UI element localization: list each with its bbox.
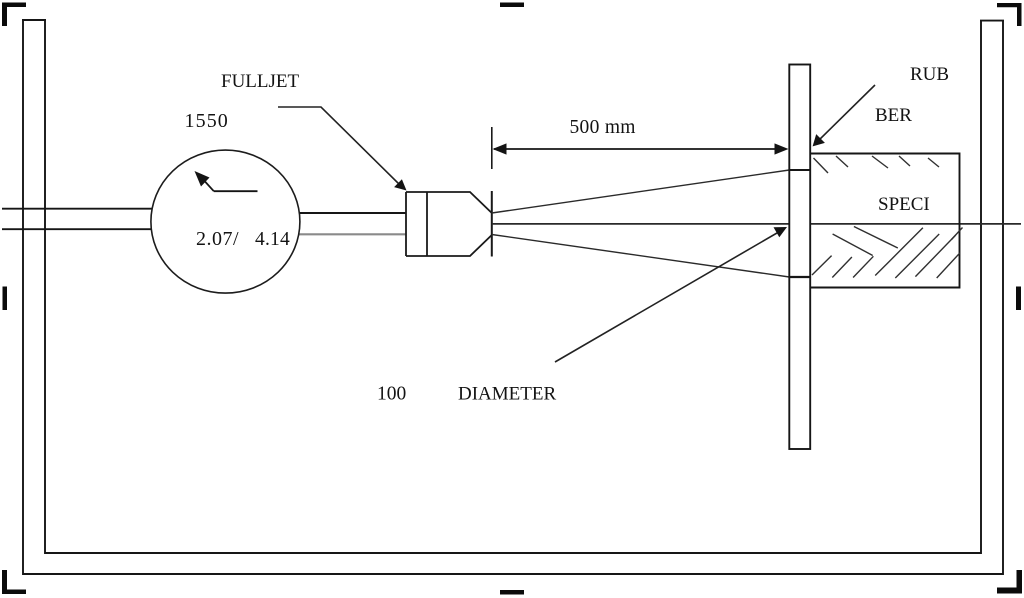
svg-text:4.14: 4.14 bbox=[255, 229, 290, 250]
registration mark middle-right bbox=[1016, 287, 1021, 311]
specimen outline bbox=[810, 154, 959, 288]
svg-text:500 mm: 500 mm bbox=[570, 117, 636, 138]
registration mark top-right bbox=[997, 3, 1022, 26]
registration mark top-left bbox=[2, 3, 26, 27]
svg-text:DIAMETER: DIAMETER bbox=[458, 384, 556, 405]
rubber leader line bbox=[817, 85, 875, 142]
dimension arrowhead right bbox=[775, 143, 789, 154]
rubber leader arrowhead bbox=[813, 134, 825, 146]
plate window bottom line bbox=[789, 276, 810, 278]
tank left wall top cap bbox=[22, 19, 46, 21]
pipe gauge-to-nozzle lower line (gray) bbox=[296, 233, 406, 235]
dimension extension line bbox=[491, 127, 493, 169]
registration mark top-middle bbox=[500, 3, 524, 8]
spray axis line bbox=[492, 223, 1021, 225]
supply pipe left lower line bbox=[2, 228, 155, 230]
svg-text:RUB: RUB bbox=[910, 64, 949, 85]
dimension arrowhead left bbox=[493, 143, 507, 154]
specimen hatch bottom bbox=[812, 227, 963, 279]
svg-text:FULLJET: FULLJET bbox=[221, 71, 300, 92]
supply pipe left upper line bbox=[2, 208, 155, 210]
dimension line 500mm bbox=[494, 148, 786, 150]
nozzle divider bbox=[426, 192, 428, 256]
spray lower line bbox=[492, 235, 790, 278]
plate window top line bbox=[789, 169, 810, 171]
diameter leader line bbox=[555, 230, 783, 363]
diameter leader arrowhead bbox=[774, 227, 788, 237]
spray upper line bbox=[492, 170, 790, 213]
tank right wall top cap bbox=[980, 20, 1004, 22]
registration mark middle-left bbox=[3, 287, 8, 311]
svg-text:2.07/: 2.07/ bbox=[196, 228, 239, 250]
svg-text:SPECI: SPECI bbox=[878, 194, 930, 215]
svg-text:1550: 1550 bbox=[185, 110, 229, 132]
svg-text:BER: BER bbox=[875, 105, 912, 126]
registration mark bottom-middle bbox=[500, 590, 524, 595]
gauge needle arrow bbox=[200, 176, 258, 191]
FULLJET leader line bbox=[278, 107, 402, 187]
FULLJET leader arrowhead bbox=[394, 179, 406, 190]
registration mark bottom-right bbox=[997, 570, 1022, 594]
pipe gauge-to-nozzle upper line bbox=[296, 212, 406, 214]
shield plate bbox=[789, 65, 810, 450]
pressure gauge circle bbox=[151, 150, 300, 293]
specimen hatch top bbox=[814, 156, 940, 173]
svg-text:100: 100 bbox=[377, 384, 406, 405]
nozzle tip face line bbox=[491, 191, 493, 257]
nozzle body bbox=[406, 192, 492, 256]
registration mark bottom-left bbox=[2, 570, 26, 594]
